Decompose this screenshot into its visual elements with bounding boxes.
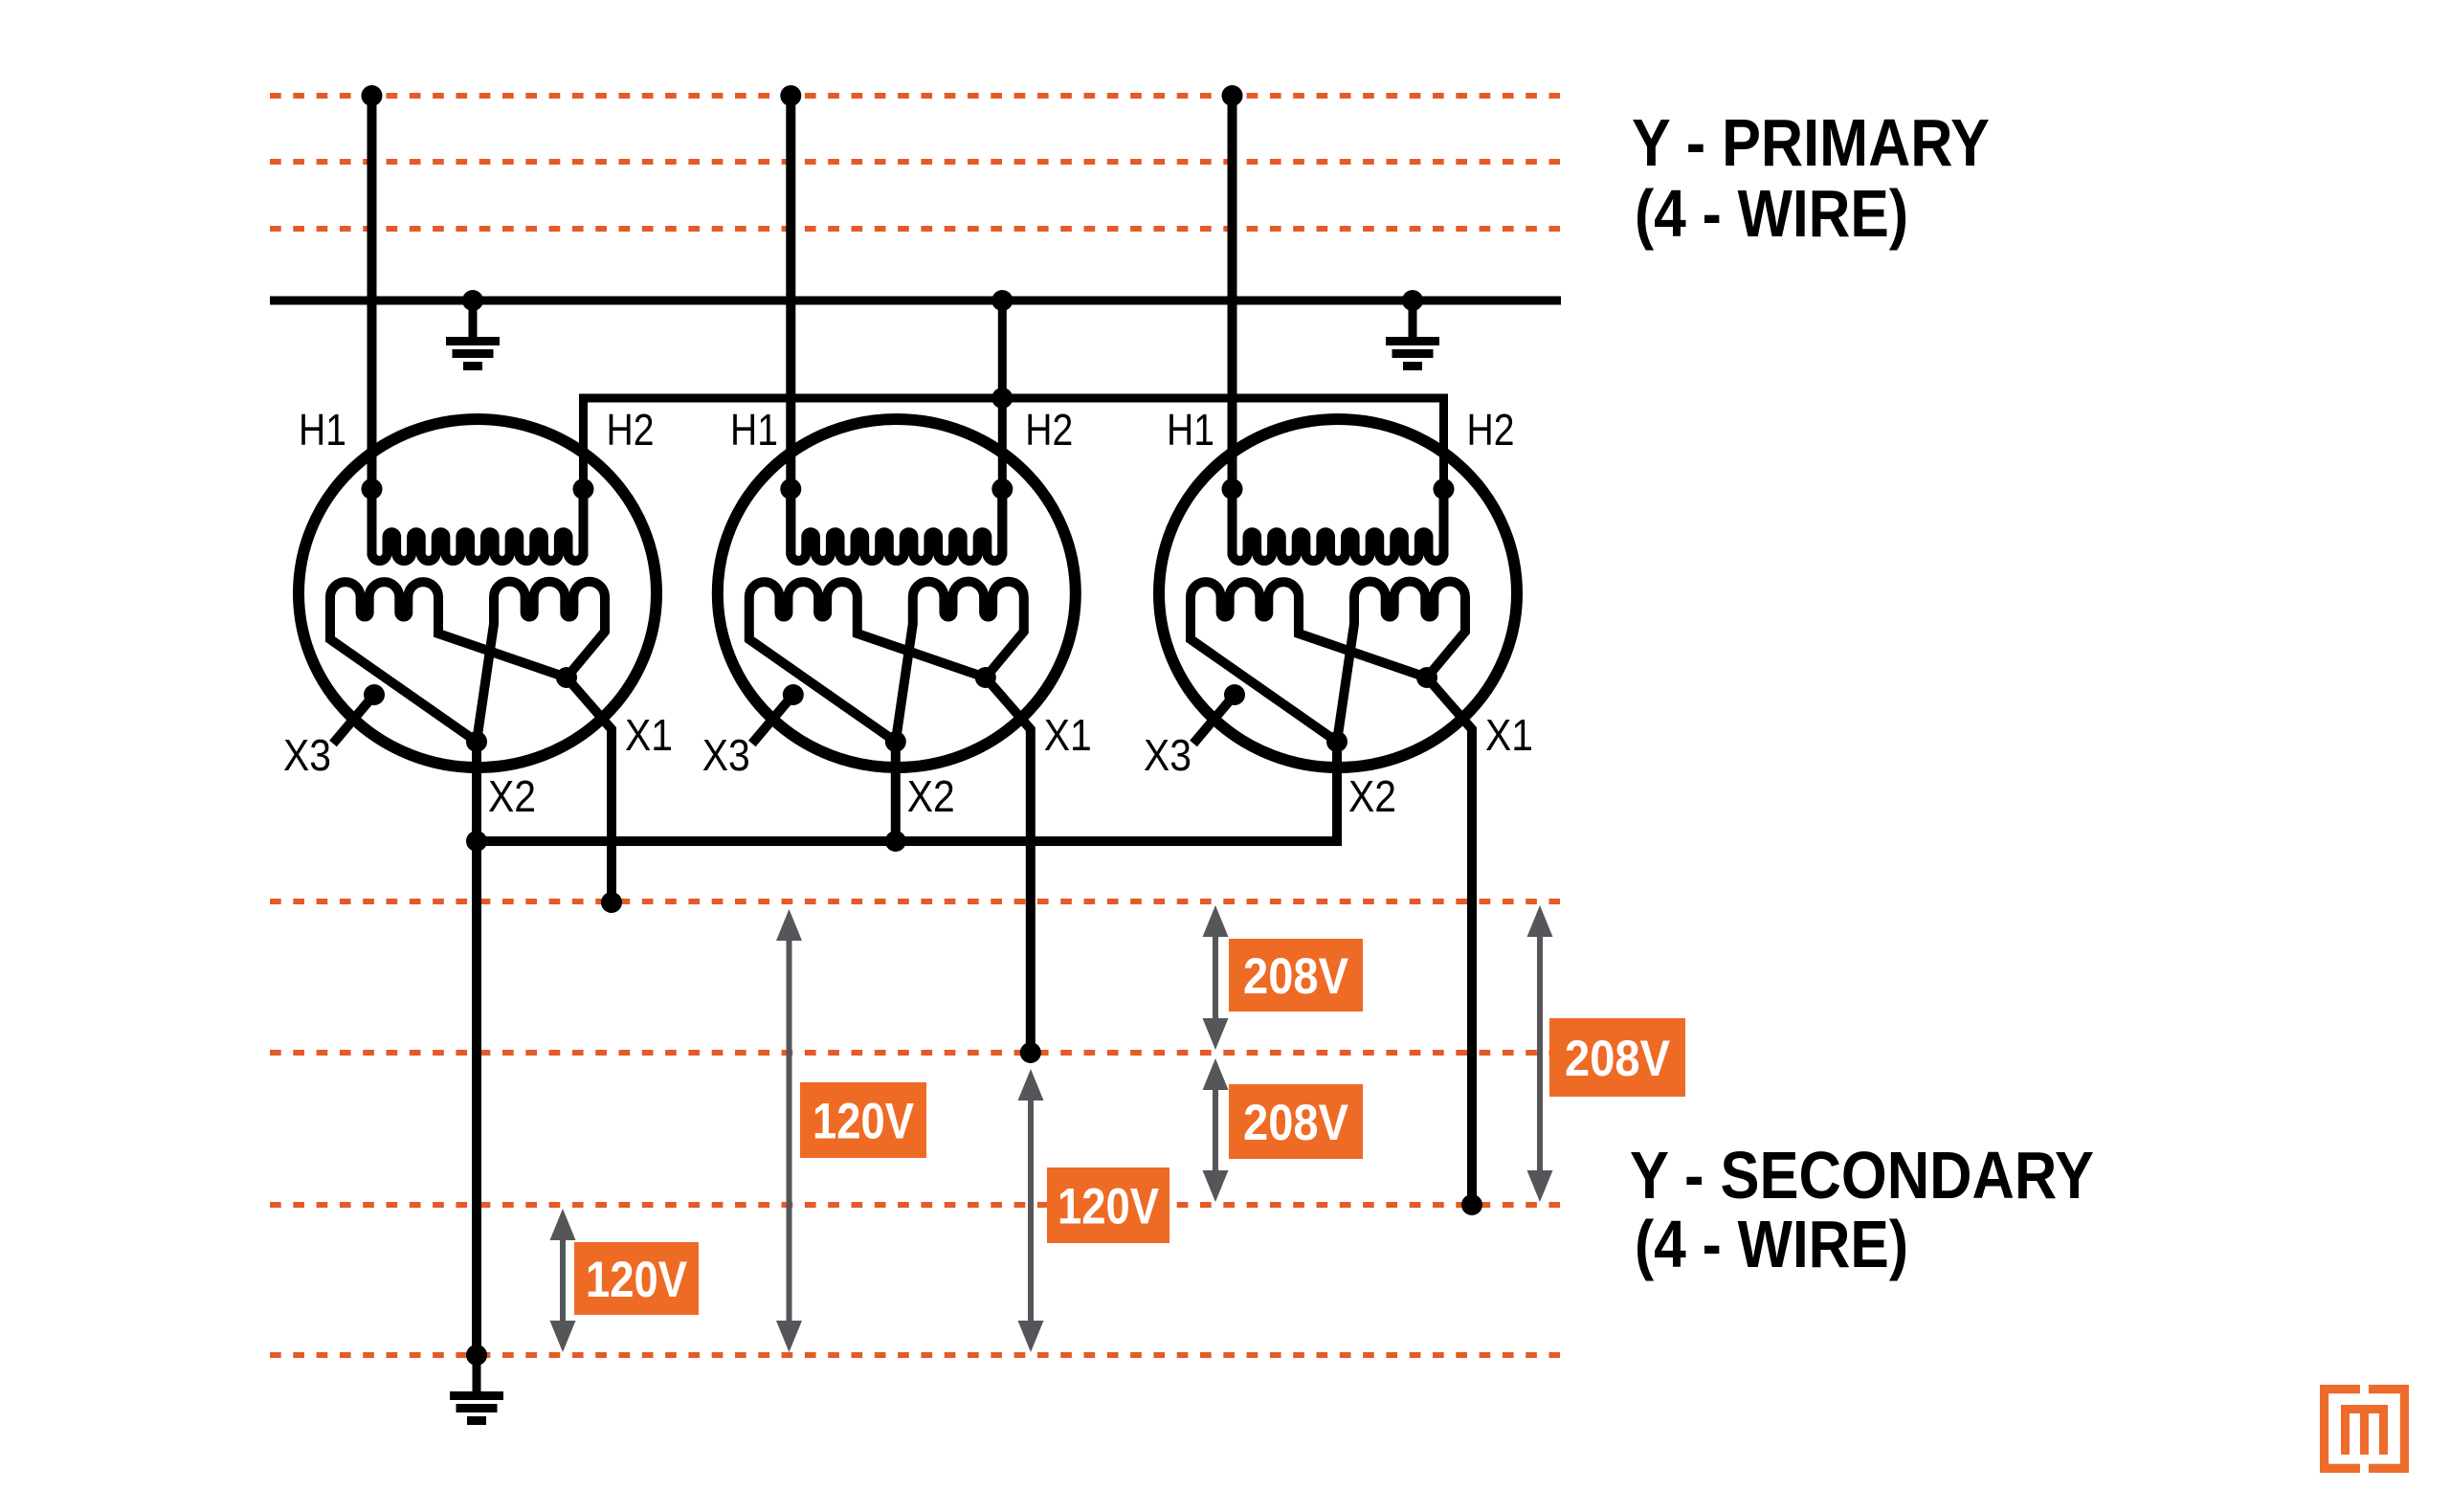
svg-text:X1: X1	[1044, 710, 1092, 760]
svg-text:H2: H2	[607, 405, 655, 455]
svg-text:X2: X2	[907, 771, 955, 821]
svg-text:X2: X2	[1348, 771, 1396, 821]
svg-text:H1: H1	[299, 405, 346, 455]
svg-text:H2: H2	[1467, 405, 1515, 455]
svg-text:Y - SECONDARY: Y - SECONDARY	[1630, 1138, 2094, 1212]
svg-text:H1: H1	[1167, 405, 1214, 455]
svg-text:Y - PRIMARY: Y - PRIMARY	[1632, 105, 1990, 180]
svg-text:X3: X3	[702, 730, 750, 780]
svg-text:(4 - WIRE): (4 - WIRE)	[1635, 1207, 1908, 1281]
svg-text:208V: 208V	[1565, 1031, 1670, 1087]
svg-text:208V: 208V	[1243, 948, 1348, 1005]
svg-text:(4 - WIRE): (4 - WIRE)	[1635, 176, 1908, 251]
svg-text:X1: X1	[1485, 710, 1533, 760]
svg-text:208V: 208V	[1243, 1095, 1348, 1151]
svg-text:X3: X3	[283, 730, 331, 780]
svg-text:H2: H2	[1025, 405, 1073, 455]
svg-text:X3: X3	[1144, 730, 1192, 780]
svg-text:120V: 120V	[813, 1094, 914, 1150]
svg-text:H1: H1	[730, 405, 778, 455]
svg-text:120V: 120V	[586, 1252, 687, 1308]
svg-text:120V: 120V	[1058, 1179, 1159, 1235]
svg-text:X2: X2	[488, 771, 536, 821]
svg-text:X1: X1	[625, 710, 673, 760]
